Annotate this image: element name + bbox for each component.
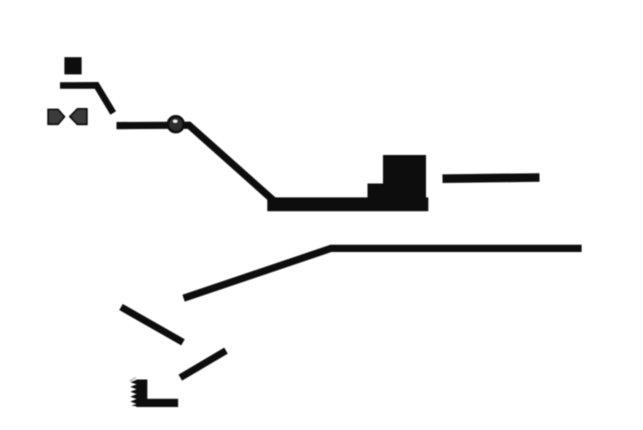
big block <box>383 155 426 209</box>
floor bar <box>267 197 428 211</box>
right arrow marker <box>70 109 87 124</box>
boot horizontal bar <box>136 399 178 407</box>
small square block <box>64 57 81 74</box>
boot vertical bar <box>136 380 147 407</box>
right shelf line <box>443 178 540 179</box>
pencil tick <box>130 378 136 381</box>
lower-left diagonal stroke <box>121 307 183 342</box>
lower rising stroke <box>180 351 226 378</box>
knot circle <box>168 116 184 132</box>
small step <box>368 184 384 200</box>
left arrow marker <box>48 110 64 125</box>
long ridge line <box>184 248 582 298</box>
ledge line with long slope <box>117 125 274 200</box>
white dot <box>173 120 177 123</box>
hook line <box>60 85 113 113</box>
serration teeth <box>130 380 137 407</box>
